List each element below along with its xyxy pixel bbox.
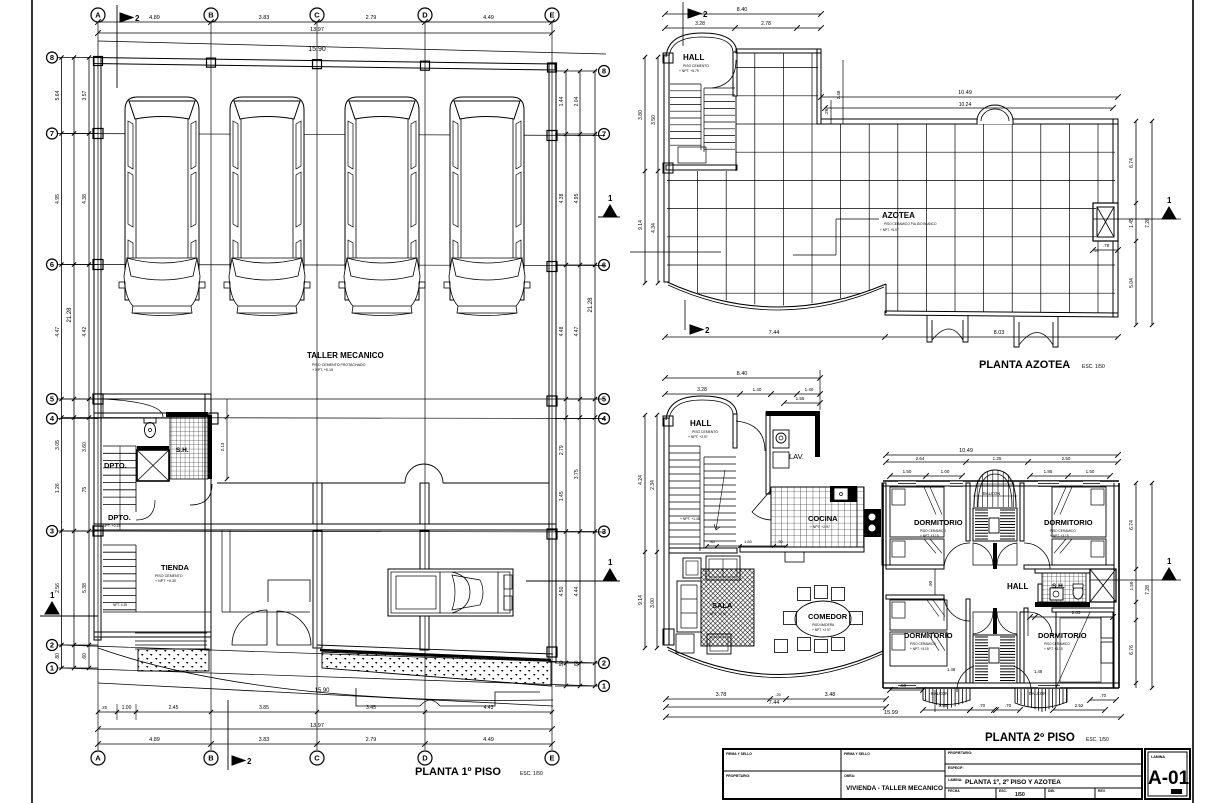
svg-text:E: E [549, 754, 554, 763]
svg-text:3.75: 3.75 [574, 469, 580, 479]
svg-text:3.57: 3.57 [82, 90, 88, 100]
svg-text:10.49: 10.49 [958, 90, 972, 96]
svg-text:+ NPT. +0.15: + NPT. +0.15 [312, 368, 333, 372]
svg-text:7.44: 7.44 [769, 330, 780, 336]
svg-text:.60: .60 [82, 653, 88, 660]
bottom dim chain small [98, 711, 553, 713]
dim 13.97 bottom [98, 728, 552, 730]
svg-text:4.34: 4.34 [651, 223, 657, 233]
p2 wall above bl bedroom [886, 595, 944, 599]
p2 mid wall left [886, 565, 944, 569]
wall B vertical dpto [205, 394, 211, 530]
p2 top dim 8.40 [665, 377, 820, 379]
street step shape [356, 688, 540, 706]
svg-text:AZOTEA: AZOTEA [882, 211, 915, 220]
ledge line with arch [217, 482, 405, 484]
svg-text:2.04: 2.04 [574, 96, 580, 106]
bed BR double [1056, 612, 1113, 688]
bed BL2 [890, 632, 947, 666]
columns on grid [94, 57, 103, 66]
svg-text:.70: .70 [1005, 703, 1012, 708]
svg-text:4.48: 4.48 [559, 326, 565, 336]
bottom dim chain big [98, 743, 552, 745]
svg-text:2: 2 [50, 641, 54, 650]
svg-text:.50: .50 [900, 683, 907, 688]
svg-text:4.95: 4.95 [574, 193, 580, 203]
p2 mid wall right [1024, 565, 1114, 569]
door arc bottom 2 [277, 611, 311, 645]
svg-text:DPTO.: DPTO. [104, 461, 127, 470]
svg-text:+ NPT. +5.79: + NPT. +5.79 [679, 69, 699, 73]
p2 LAV room [766, 412, 770, 494]
svg-text:ESC. 1/50: ESC. 1/50 [1082, 364, 1105, 370]
svg-text:5.04: 5.04 [1129, 278, 1135, 288]
svg-text:.25: .25 [775, 692, 781, 697]
svg-text:C: C [314, 754, 320, 763]
wall row5 [94, 394, 211, 399]
hatch band right [322, 652, 551, 686]
svg-text:4.42: 4.42 [82, 327, 88, 337]
grid row 7 [62, 134, 605, 136]
azotea hall right wall [733, 52, 737, 96]
cocina door fan [752, 490, 771, 520]
p2 hall left wall [664, 418, 669, 645]
bottom row cells [995, 788, 997, 799]
svg-text:2.34: 2.34 [650, 480, 656, 490]
svg-text:10.24: 10.24 [959, 102, 972, 108]
right wall E [549, 64, 556, 662]
right dim chain lines [565, 71, 567, 686]
bed TR2 [1052, 539, 1106, 565]
windows bottom wall [898, 683, 916, 687]
balcony dims p2 [890, 689, 923, 691]
svg-text:PISO CEMENTO: PISO CEMENTO [683, 64, 709, 68]
door arc br bedroom [1028, 612, 1052, 636]
svg-text:PLANTA 1º, 2º PISO Y AZOTE: PLANTA 1º, 2º PISO Y AZOTEA [965, 779, 1061, 786]
svg-text:7.28: 7.28 [1145, 218, 1151, 228]
p2 hall dome [666, 396, 737, 420]
p2 hall door arc [736, 421, 765, 451]
sheet border right [1192, 0, 1194, 803]
counter below kitchen [785, 552, 804, 562]
svg-text:1.55: 1.55 [796, 396, 805, 401]
svg-text:.25: .25 [1093, 248, 1099, 253]
SH room tiles [170, 415, 208, 479]
svg-text:FECHA: FECHA [948, 789, 960, 793]
svg-text:ESC. 1/50: ESC. 1/50 [520, 771, 543, 777]
svg-text:COCINA: COCINA [808, 514, 838, 523]
svg-text:1: 1 [50, 591, 55, 600]
svg-text:7.28: 7.28 [1145, 585, 1151, 595]
sofa big [677, 581, 701, 632]
svg-text:13.97: 13.97 [310, 723, 324, 729]
svg-text:15,90: 15,90 [314, 688, 330, 694]
p2 window dims [890, 475, 962, 477]
stairs lower flight [103, 544, 136, 546]
azotea top arc bump [977, 105, 1013, 121]
svg-text:FIRMA Y SELLO: FIRMA Y SELLO [726, 752, 752, 756]
comedor chairs [798, 588, 811, 601]
p2 balcon top [974, 470, 1016, 507]
stairs upper flight [103, 445, 136, 447]
azotea notch top wall [736, 49, 821, 53]
p2 stair arrow [714, 470, 725, 530]
p2 stair bottom wall [669, 548, 737, 553]
grid row 2 [62, 645, 598, 663]
svg-text:4.47: 4.47 [574, 326, 580, 336]
p2 center post [993, 543, 997, 569]
azotea elevator dim [1093, 249, 1118, 251]
svg-text:1: 1 [50, 664, 54, 673]
svg-text:B: B [208, 11, 214, 20]
bed BL1 [890, 600, 947, 630]
svg-text:LAMINA: LAMINA [1151, 755, 1165, 759]
section flag 2 bottom [227, 700, 229, 770]
svg-text:A: A [95, 11, 101, 20]
svg-text:PLANTA 1º PISO: PLANTA 1º PISO [415, 766, 501, 778]
svg-text:PROPIETARIO:: PROPIETARIO: [948, 751, 972, 755]
svg-text:2.79: 2.79 [559, 445, 565, 455]
svg-text:1: 1 [608, 194, 613, 203]
svg-text:3.05: 3.05 [55, 440, 61, 450]
svg-text:5.38: 5.38 [82, 583, 88, 593]
dim 15.90 bottom [98, 683, 553, 706]
garage bottom thin line [317, 645, 553, 654]
svg-text:2.64: 2.64 [916, 456, 925, 461]
bed TL1 [890, 487, 944, 537]
SH sink [1050, 588, 1063, 600]
svg-text:.50: .50 [559, 660, 565, 667]
svg-text:2.48: 2.48 [836, 90, 841, 99]
azotea notch dims [830, 100, 832, 124]
svg-text:2.52: 2.52 [1075, 703, 1084, 708]
svg-text:DPTO.: DPTO. [108, 513, 131, 522]
svg-text:+ NPT. +3.15: + NPT. +3.15 [1044, 647, 1063, 651]
svg-text:PISO CEMENTO FROTACHADO: PISO CEMENTO FROTACHADO [312, 363, 366, 367]
svg-text:2: 2 [602, 659, 606, 668]
svg-text:5.64: 5.64 [55, 90, 61, 100]
svg-text:+ NPT. +2.97: + NPT. +2.97 [707, 612, 727, 616]
svg-text:4.24: 4.24 [638, 475, 644, 485]
entry steps [135, 632, 207, 634]
svg-text:.60: .60 [574, 660, 580, 667]
svg-text:3.83: 3.83 [259, 737, 270, 743]
svg-text:8.40: 8.40 [737, 7, 748, 13]
svg-text:5: 5 [602, 395, 606, 404]
svg-text:3.28: 3.28 [697, 387, 707, 393]
dim 15.90 top [98, 41, 606, 54]
van at 267 [224, 97, 310, 316]
p2 left wall bedrooms [882, 483, 884, 688]
svg-text:DORMITORIO: DORMITORIO [904, 631, 953, 640]
svg-text:.70: .70 [979, 703, 986, 708]
p2 big curve [667, 647, 883, 675]
grid line B [210, 22, 212, 750]
svg-text:4.47: 4.47 [55, 327, 61, 337]
pilaster D [420, 483, 429, 524]
svg-text:DORMITORIO: DORMITORIO [1044, 518, 1093, 527]
p2 dim 1.55 [784, 402, 820, 404]
p2 bottom dims [666, 698, 886, 700]
svg-text:9.14: 9.14 [638, 595, 644, 605]
svg-text:S.H.: S.H. [1052, 583, 1065, 590]
armchair top1 [683, 558, 701, 578]
svg-text:A-01: A-01 [1148, 768, 1190, 789]
svg-text:1.45: 1.45 [559, 491, 565, 501]
svg-text:4.89: 4.89 [149, 737, 160, 743]
svg-text:REV.: REV. [1098, 789, 1106, 793]
garage bottom thick line [320, 650, 551, 660]
svg-text:PISO CERAMICO PULIDO BLANCO: PISO CERAMICO PULIDO BLANCO [884, 222, 937, 226]
right cell rows [945, 763, 1142, 765]
svg-text:15,90: 15,90 [308, 46, 326, 53]
svg-text:1: 1 [1167, 557, 1172, 566]
svg-text:+ NPT. +3.15: + NPT. +3.15 [920, 534, 939, 538]
svg-text:PROPIETARIO:: PROPIETARIO: [726, 774, 750, 778]
door arc hall top [103, 399, 163, 417]
loveseat top [706, 556, 740, 580]
svg-text:4.49: 4.49 [483, 737, 494, 743]
svg-text:8.40: 8.40 [737, 371, 748, 377]
svg-text:1.48: 1.48 [1034, 669, 1043, 674]
svg-text:ESC.: ESC. [999, 789, 1007, 793]
svg-text:1.00: 1.00 [122, 705, 132, 711]
pickup truck [388, 569, 513, 616]
grid line C [316, 22, 318, 750]
small door arc dpto [136, 500, 155, 520]
title block dividers [840, 749, 842, 799]
wall row4 [94, 413, 205, 418]
svg-text:1.26: 1.26 [55, 483, 61, 493]
svg-text:8: 8 [50, 53, 54, 62]
svg-text:4.43: 4.43 [484, 705, 494, 711]
p2 kitchen right wall [882, 483, 886, 565]
svg-text:4.49: 4.49 [483, 15, 494, 21]
door arc tienda right [190, 484, 212, 505]
grid line A [97, 22, 99, 750]
p2 doors below louver [973, 543, 993, 565]
azotea main top wall [821, 119, 977, 124]
svg-text:21.28: 21.28 [67, 307, 73, 323]
grid row 6 [62, 265, 605, 266]
SH right wall [208, 415, 212, 479]
side table [676, 634, 694, 653]
svg-text:HALL: HALL [683, 53, 704, 62]
top dim chain [98, 21, 552, 23]
svg-text:2.78: 2.78 [761, 21, 771, 27]
azotea right wall upper [1113, 119, 1118, 203]
svg-text:4.89: 4.89 [149, 15, 160, 21]
p2 right dims [1135, 483, 1137, 688]
svg-text:3: 3 [602, 527, 606, 536]
counter right [857, 487, 864, 547]
svg-text:3.48: 3.48 [825, 692, 836, 698]
svg-text:NPT. 4.35: NPT. 4.35 [113, 603, 127, 607]
section flag 2 top [116, 5, 118, 88]
svg-text:HALL: HALL [690, 419, 711, 428]
step shape counter [268, 580, 310, 602]
svg-text:1: 1 [1167, 196, 1172, 205]
svg-text:3.60: 3.60 [82, 442, 88, 452]
svg-text:3.85: 3.85 [259, 705, 269, 711]
svg-text:4.38: 4.38 [82, 194, 88, 204]
azotea bottom wall [885, 311, 1118, 317]
A-01 box [1145, 749, 1190, 799]
svg-text:VIVIENDA - TALLER MECANICO: VIVIENDA - TALLER MECANICO [846, 785, 943, 792]
svg-text:3.78: 3.78 [716, 692, 727, 698]
mid cell [841, 770, 945, 772]
hatch pad left [138, 649, 209, 671]
svg-text:DORMITORIO: DORMITORIO [914, 518, 963, 527]
svg-text:B: B [208, 754, 214, 763]
svg-text:HALL: HALL [1007, 582, 1028, 591]
svg-text:8.03: 8.03 [994, 330, 1005, 336]
svg-text:1: 1 [608, 558, 613, 567]
sheet border left [31, 0, 33, 803]
svg-text:D: D [422, 11, 428, 20]
svg-text:OBRA:: OBRA: [844, 774, 855, 778]
p2 right wall bedrooms [1113, 483, 1115, 688]
grid row 3 [62, 531, 605, 532]
svg-text:FIRMA Y SELLO: FIRMA Y SELLO [844, 752, 870, 756]
azotea dim 10.49 [821, 96, 1118, 98]
svg-text:TALLER MECANICO: TALLER MECANICO [307, 351, 384, 360]
svg-text:1.45: 1.45 [1129, 218, 1135, 228]
svg-text:1.40: 1.40 [753, 387, 762, 392]
roof tile grid [660, 39, 1155, 330]
left dim chain lines [61, 58, 63, 669]
svg-text:.28: .28 [824, 108, 829, 115]
svg-text:.78: .78 [1103, 243, 1110, 248]
svg-text:.90: .90 [928, 580, 933, 587]
svg-text:PISO MADERA: PISO MADERA [812, 623, 835, 627]
svg-text:+ NPT. +0.30: + NPT. +0.30 [155, 579, 176, 583]
section marker 1 left [45, 602, 59, 614]
svg-text:.75: .75 [82, 487, 88, 494]
p2 louver bottom [973, 635, 1017, 683]
svg-text:7: 7 [50, 129, 54, 138]
p2 hall arcs [944, 543, 970, 569]
svg-text:PISO CEMENTO: PISO CEMENTO [692, 430, 718, 434]
svg-text:1.50: 1.50 [1129, 581, 1134, 590]
cocina top wall [771, 486, 864, 488]
svg-text:2: 2 [705, 326, 710, 335]
svg-text:.85: .85 [709, 539, 715, 544]
azotea bottom dim [665, 336, 1118, 338]
svg-text:SALA: SALA [712, 601, 733, 610]
svg-text:PISO CERAMICO: PISO CERAMICO [910, 642, 936, 646]
section line 1 azotea left [630, 251, 721, 253]
svg-text:3.28: 3.28 [695, 21, 705, 27]
svg-text:BALCON: BALCON [983, 491, 1000, 496]
p2 top wall bedrooms [883, 480, 1119, 482]
svg-text:PISO CERAMICO: PISO CERAMICO [1044, 642, 1070, 646]
svg-text:PISO CEMENTO: PISO CEMENTO [155, 574, 183, 578]
azotea elevator box [1093, 203, 1118, 241]
tienda inner lines [221, 530, 223, 612]
title block outer [723, 749, 1142, 799]
grid row 1 [62, 668, 598, 686]
svg-text:6.74: 6.74 [1129, 520, 1135, 530]
svg-text:6: 6 [50, 260, 54, 269]
svg-text:3: 3 [50, 527, 54, 536]
svg-text:4.38: 4.38 [559, 193, 565, 203]
section marker 1 right lower [603, 569, 617, 581]
p2 bottom wall bedrooms [883, 682, 1119, 684]
armchair bottom [707, 634, 731, 654]
svg-text:1.48: 1.48 [947, 667, 956, 672]
svg-text:BALCON: BALCON [931, 691, 948, 696]
svg-text:2.79: 2.79 [366, 737, 377, 743]
azotea hall dome [666, 33, 737, 57]
p2 elevator [1090, 569, 1116, 602]
pilaster C [313, 483, 322, 524]
svg-text:5: 5 [50, 395, 54, 404]
svg-text:PISO CERAMICO: PISO CERAMICO [1050, 529, 1076, 533]
p2 dim .85 1.80 .30 [707, 545, 786, 547]
closet X box [137, 446, 169, 450]
svg-text:1.25: 1.25 [993, 456, 1002, 461]
svg-text:+ NPT. +0.15: + NPT. +0.15 [100, 524, 120, 528]
svg-text:6.76: 6.76 [1129, 645, 1135, 655]
svg-text:D: D [422, 754, 428, 763]
svg-text:TIENDA: TIENDA [161, 563, 190, 572]
azotea flag2 bottom [684, 300, 686, 330]
dim 13.97 top [98, 32, 552, 34]
azotea hall door arc [712, 60, 736, 88]
p2 left dims [644, 415, 646, 648]
azotea hall bottom wall [666, 165, 737, 170]
toilet [144, 418, 156, 423]
svg-text:LAV.: LAV. [789, 452, 804, 461]
washer [773, 430, 789, 448]
grid circles top [91, 8, 105, 22]
p2 section marker right [1162, 568, 1176, 580]
svg-text:1.50: 1.50 [903, 469, 912, 474]
bed TR1 [1052, 487, 1106, 537]
svg-text:1.44: 1.44 [559, 96, 565, 106]
svg-text:.25: .25 [101, 705, 107, 710]
svg-text:15.99: 15.99 [884, 710, 898, 716]
SH dim right [226, 399, 228, 479]
row circles left [47, 52, 58, 63]
section marker 1 right upper [603, 205, 617, 217]
svg-text:PLANTA AZOTEA: PLANTA AZOTEA [979, 359, 1070, 371]
van at 382 [339, 97, 425, 316]
svg-text:.80: .80 [55, 653, 61, 660]
left cell line [723, 770, 841, 772]
svg-text:+ NPT. +3.15: + NPT. +3.15 [910, 647, 929, 651]
azotea big curve [667, 282, 886, 307]
svg-text:4.50: 4.50 [559, 586, 565, 596]
svg-text:0.98: 0.98 [939, 703, 948, 708]
svg-text:1.85: 1.85 [1044, 469, 1053, 474]
p2 wall below kitchen [740, 547, 864, 552]
door arc bottom 1 [232, 610, 267, 645]
svg-text:6.74: 6.74 [1129, 158, 1135, 168]
p2 hall right wall [733, 414, 737, 448]
dim .90 hall [934, 569, 936, 595]
svg-text:COMEDOR: COMEDOR [808, 612, 848, 621]
p2 stairs [669, 445, 700, 447]
grid row 4 [62, 418, 605, 419]
azotea hall left wall [664, 55, 669, 282]
section marker 1 azotea right [1162, 207, 1176, 219]
svg-text:1.80: 1.80 [744, 539, 753, 544]
svg-text:+ NPT. +2.97: + NPT. +2.97 [688, 435, 708, 439]
svg-text:1.40: 1.40 [805, 387, 814, 392]
bottom wall left [94, 632, 211, 637]
